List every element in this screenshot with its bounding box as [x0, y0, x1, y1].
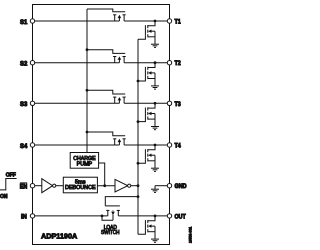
svg-text:PUMP: PUMP	[77, 162, 93, 168]
wire charge pump input	[99, 163, 105, 186]
wire S4 to switch	[33, 144, 120, 146]
mosfet QD4 (discharge pull-down)	[154, 144, 157, 147]
wire GND	[155, 185, 170, 187]
svg-text:ADP1190A: ADP1190A	[41, 231, 78, 240]
wire S1 to switch	[33, 20, 120, 22]
svg-text:S2: S2	[20, 61, 28, 68]
mosfet Q1 (series switch)	[87, 9, 125, 12]
mosfet Q4 (series switch)	[87, 132, 125, 136]
svg-text:IN: IN	[21, 213, 27, 220]
wire body tie	[102, 216, 113, 220]
node T4 gate tap	[137, 162, 140, 165]
mosfet Q3 (series switch)	[87, 90, 125, 94]
pin EN	[30, 184, 34, 188]
pin T4	[167, 143, 171, 147]
svg-text:T2: T2	[175, 60, 182, 67]
charge pump block	[70, 153, 98, 169]
svg-text:GND: GND	[175, 183, 188, 190]
node load switch gate tap	[137, 195, 140, 198]
mosfet Q2 (series switch)	[87, 50, 125, 54]
wire load switch to OUT	[118, 215, 169, 217]
pin OUT	[167, 214, 171, 218]
svg-text:T1: T1	[175, 19, 182, 26]
wire switch to T4	[124, 144, 169, 146]
mosfet load switch	[105, 205, 120, 207]
svg-text:S1: S1	[20, 19, 28, 26]
svg-text:16538-001: 16538-001	[188, 227, 192, 243]
pin T3	[167, 101, 171, 105]
inverter U2 (gate driver)	[115, 179, 128, 192]
wire IN to load switch	[33, 215, 108, 217]
wire driver to gate bus	[131, 185, 138, 187]
EN overline	[20, 182, 27, 184]
node body tie	[101, 215, 104, 218]
wire switch to T2	[124, 62, 169, 64]
svg-text:S3: S3	[20, 101, 28, 108]
pin S4	[30, 143, 34, 147]
pin S3	[30, 101, 34, 105]
node gate tap Q3	[86, 89, 89, 92]
wire S3 to switch	[33, 102, 120, 104]
ground (below QDOUT)	[151, 238, 159, 240]
svg-text:ON: ON	[0, 194, 8, 200]
wire inverter to debounce	[56, 185, 64, 187]
svg-text:T3: T3	[175, 101, 182, 108]
ground (below QD1)	[151, 43, 159, 45]
wire debounce to buffer	[97, 185, 115, 187]
node driver output	[137, 184, 140, 187]
node T3 gate tap	[137, 120, 140, 123]
IC outline box	[33, 5, 170, 245]
mosfet QD1 (discharge pull-down)	[154, 20, 157, 23]
pin GND	[167, 184, 171, 188]
inverter U1 (EN input)	[42, 179, 53, 193]
pin S2	[30, 61, 34, 65]
svg-text:OUT: OUT	[175, 213, 186, 220]
ground (below QD2)	[151, 85, 159, 87]
ground (GND pin)	[151, 188, 159, 190]
pin T1	[167, 19, 171, 23]
node T2 gate tap	[137, 80, 140, 83]
mosfet QD2 (discharge pull-down)	[154, 61, 157, 64]
wire switch to T1	[124, 20, 169, 22]
svg-text:DEBOUNCE: DEBOUNCE	[65, 185, 96, 191]
ground (below QD4)	[151, 167, 159, 169]
pin T2	[167, 61, 171, 65]
svg-text:T4: T4	[175, 143, 182, 150]
node gate tap Q2	[86, 48, 89, 51]
ground (below QD3)	[151, 126, 159, 128]
pin IN	[30, 214, 34, 218]
svg-text:EN: EN	[20, 183, 27, 190]
charge pump gate bus (vertical)	[86, 9, 88, 153]
svg-text:OFF: OFF	[6, 173, 16, 179]
mosfet QDOUT (discharge pull-down)	[154, 215, 157, 218]
svg-text:S4: S4	[20, 143, 28, 150]
mosfet QD3 (discharge pull-down)	[154, 102, 157, 105]
node gate tap Q4	[86, 131, 89, 134]
wire EN to inverter	[33, 185, 42, 187]
pin S1	[30, 19, 34, 23]
wire switch to T3	[124, 102, 169, 104]
wire load switch gate	[105, 197, 138, 206]
discharge gate bus (vertical)	[137, 39, 139, 234]
debounce block	[63, 177, 97, 193]
wire S2 to switch	[33, 62, 120, 64]
svg-text:SWITCH: SWITCH	[101, 230, 120, 236]
node charge pump feed	[103, 184, 106, 187]
